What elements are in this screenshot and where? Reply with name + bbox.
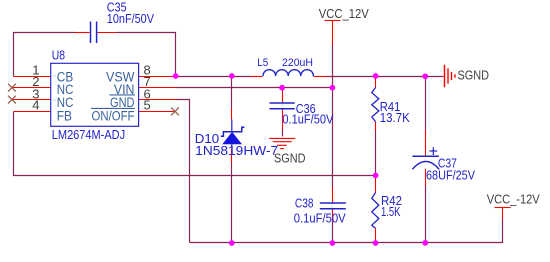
svg-text:U8: U8 xyxy=(52,48,65,63)
svg-text:LM2674M-ADJ: LM2674M-ADJ xyxy=(52,127,125,142)
svg-text:SGND: SGND xyxy=(458,68,490,83)
svg-text:4: 4 xyxy=(32,98,39,113)
svg-text:SGND: SGND xyxy=(274,151,306,166)
svg-text:VCC_-12V: VCC_-12V xyxy=(487,192,540,207)
svg-text:L5: L5 xyxy=(257,57,268,69)
svg-text:0.1uF/50V: 0.1uF/50V xyxy=(294,211,346,226)
svg-text:0.1uF/50V: 0.1uF/50V xyxy=(282,111,333,126)
svg-text:ON/OFF: ON/OFF xyxy=(92,108,135,123)
svg-text:220uH: 220uH xyxy=(282,57,313,69)
svg-text:FB: FB xyxy=(57,108,72,123)
svg-text:1N5819HW-7: 1N5819HW-7 xyxy=(195,143,278,158)
svg-text:68UF/25V: 68UF/25V xyxy=(426,167,475,182)
svg-text:10nF/50V: 10nF/50V xyxy=(107,11,154,26)
svg-text:C38: C38 xyxy=(295,195,314,210)
svg-text:VCC_12V: VCC_12V xyxy=(319,6,369,21)
svg-text:1.5K: 1.5K xyxy=(381,204,401,219)
svg-text:13.7K: 13.7K xyxy=(380,110,410,125)
svg-text:5: 5 xyxy=(144,98,151,113)
